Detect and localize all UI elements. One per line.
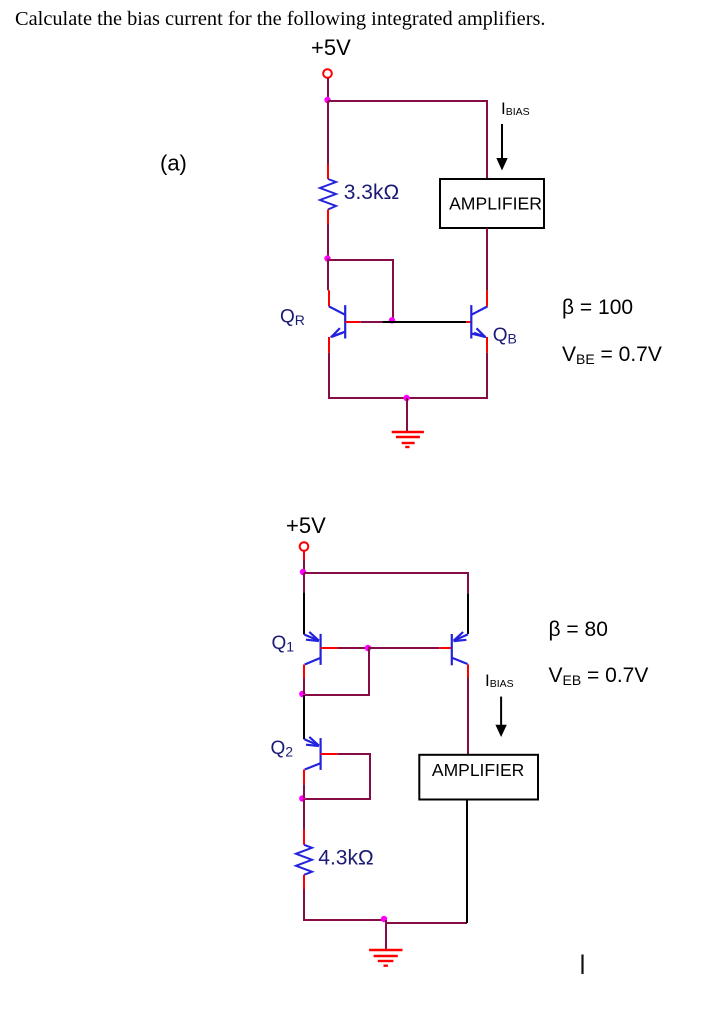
- svg-text:4.3kΩ: 4.3kΩ: [318, 847, 373, 870]
- transistor Q2: [304, 737, 320, 770]
- node dot collector QR: [324, 255, 330, 261]
- wire resistor to bottom rail (b): [304, 889, 384, 920]
- pin stub QB base: [466, 321, 471, 323]
- svg-text:+5V: +5V: [286, 513, 326, 538]
- wire base rail to right PNP: [368, 647, 439, 649]
- pin stub Q2 collector: [303, 770, 305, 785]
- transistor QB: [471, 305, 487, 338]
- pin stub Q1 base: [321, 647, 338, 649]
- ground symbol (a): [392, 432, 424, 447]
- svg-text:IBIAS: IBIAS: [501, 99, 530, 118]
- wire node to resistor (b): [303, 799, 305, 829]
- wire QR emitter down (a): [328, 353, 330, 399]
- transistor Q3 right PNP: [452, 632, 468, 665]
- amplifier box (b): [419, 755, 538, 800]
- terminal +5V circuit a: [323, 69, 332, 78]
- svg-text:AMPLIFIER: AMPLIFIER: [432, 760, 524, 780]
- pin stub QB collector: [486, 291, 488, 307]
- wire right PNP collector to amplifier (b): [467, 678, 469, 755]
- wire node to QR collector (a): [327, 259, 329, 291]
- wire Q1 base to node: [338, 647, 368, 649]
- arrow IBIAS (b): [495, 697, 506, 737]
- svg-text:Calculate the bias current for: Calculate the bias current for the follo…: [15, 8, 546, 30]
- pin stub QR collector: [328, 290, 330, 306]
- wire diode loop Q1: [304, 649, 369, 695]
- svg-text:(a): (a): [160, 151, 187, 176]
- wire Q1 collector to node: [303, 678, 305, 694]
- wire diode-connect loop (a): [328, 260, 393, 320]
- node dot rail (b): [300, 569, 306, 575]
- svg-text:AMPLIFIER: AMPLIFIER: [449, 194, 542, 214]
- svg-text:Q2: Q2: [271, 738, 294, 760]
- pin stub Q1 collector: [303, 665, 305, 679]
- wire ground stem (b): [385, 920, 387, 949]
- resistor R 3.3k zigzag: [320, 179, 336, 210]
- wire bottom rail (a): [328, 397, 488, 399]
- wire top rail (a): [328, 101, 487, 179]
- transistor Q1: [304, 632, 320, 665]
- wire amplifier to ground rail (black, b): [466, 800, 468, 924]
- pin stub right PNP base: [439, 647, 452, 649]
- wire terminal to node (a): [327, 78, 329, 99]
- ground symbol (b): [369, 950, 402, 966]
- wire base line black (a): [383, 321, 467, 323]
- node dot Q1 collector: [299, 691, 305, 697]
- arrow IBIAS (a): [496, 124, 507, 171]
- pin stub QR base: [345, 321, 361, 323]
- node dot base rail (b): [365, 645, 371, 651]
- amplifier box (a): [440, 179, 544, 228]
- node dot top-left (a): [324, 97, 330, 103]
- node dot ground (a): [403, 395, 409, 401]
- svg-text:QR: QR: [280, 307, 305, 329]
- wire QR base to node: [361, 321, 383, 323]
- wire bottom rail right segment (b): [385, 922, 467, 924]
- svg-text:Q1: Q1: [272, 633, 295, 655]
- wire QB emitter down (a): [486, 353, 488, 399]
- wire top rail (b): [304, 573, 468, 594]
- svg-text:β = 100: β = 100: [562, 296, 633, 319]
- wire ground stem (a): [406, 398, 408, 431]
- pin stub above resistor (a): [327, 165, 329, 180]
- terminal +5V circuit b: [300, 542, 309, 551]
- svg-text:β = 80: β = 80: [549, 618, 608, 641]
- wire diode loop Q2: [304, 754, 370, 799]
- svg-text:VBE = 0.7V: VBE = 0.7V: [562, 343, 662, 367]
- svg-text:3.3kΩ: 3.3kΩ: [344, 181, 399, 204]
- pin stub QR emitter: [328, 337, 330, 353]
- pin stub above resistor (b): [303, 829, 305, 844]
- svg-text:VEB = 0.7V: VEB = 0.7V: [549, 664, 649, 688]
- wire rail to right PNP emitter (black): [467, 594, 469, 634]
- pin stub below resistor (a): [327, 210, 329, 225]
- pin stub below resistor (b): [303, 875, 305, 889]
- transistor QR: [329, 305, 345, 338]
- cursor bar: [581, 955, 583, 975]
- wire +5V node down to resistor (a): [327, 101, 329, 165]
- resistor R 4.3k zigzag: [296, 845, 312, 875]
- pin stub Q2 base: [321, 753, 338, 755]
- wire QB collector up to amplifier: [486, 228, 488, 291]
- wire resistor to node (a): [327, 224, 329, 258]
- node dot Q2 collector: [299, 795, 305, 801]
- svg-text:+5V: +5V: [311, 35, 351, 60]
- node dot ground (b): [381, 916, 387, 922]
- wire Q2 collector to node: [303, 784, 305, 798]
- node dot base line (a): [389, 317, 395, 323]
- pin stub right PNP collector: [467, 664, 469, 677]
- pin stub below terminal b: [303, 551, 305, 560]
- svg-text:IBIAS: IBIAS: [485, 671, 514, 690]
- wire rail to Q1 emitter (black): [303, 573, 305, 592]
- wire node to Q2 emitter (black): [303, 695, 305, 739]
- svg-text:QB: QB: [493, 325, 517, 347]
- pin stub QB emitter: [486, 337, 488, 353]
- wire to rail node b: [303, 560, 305, 572]
